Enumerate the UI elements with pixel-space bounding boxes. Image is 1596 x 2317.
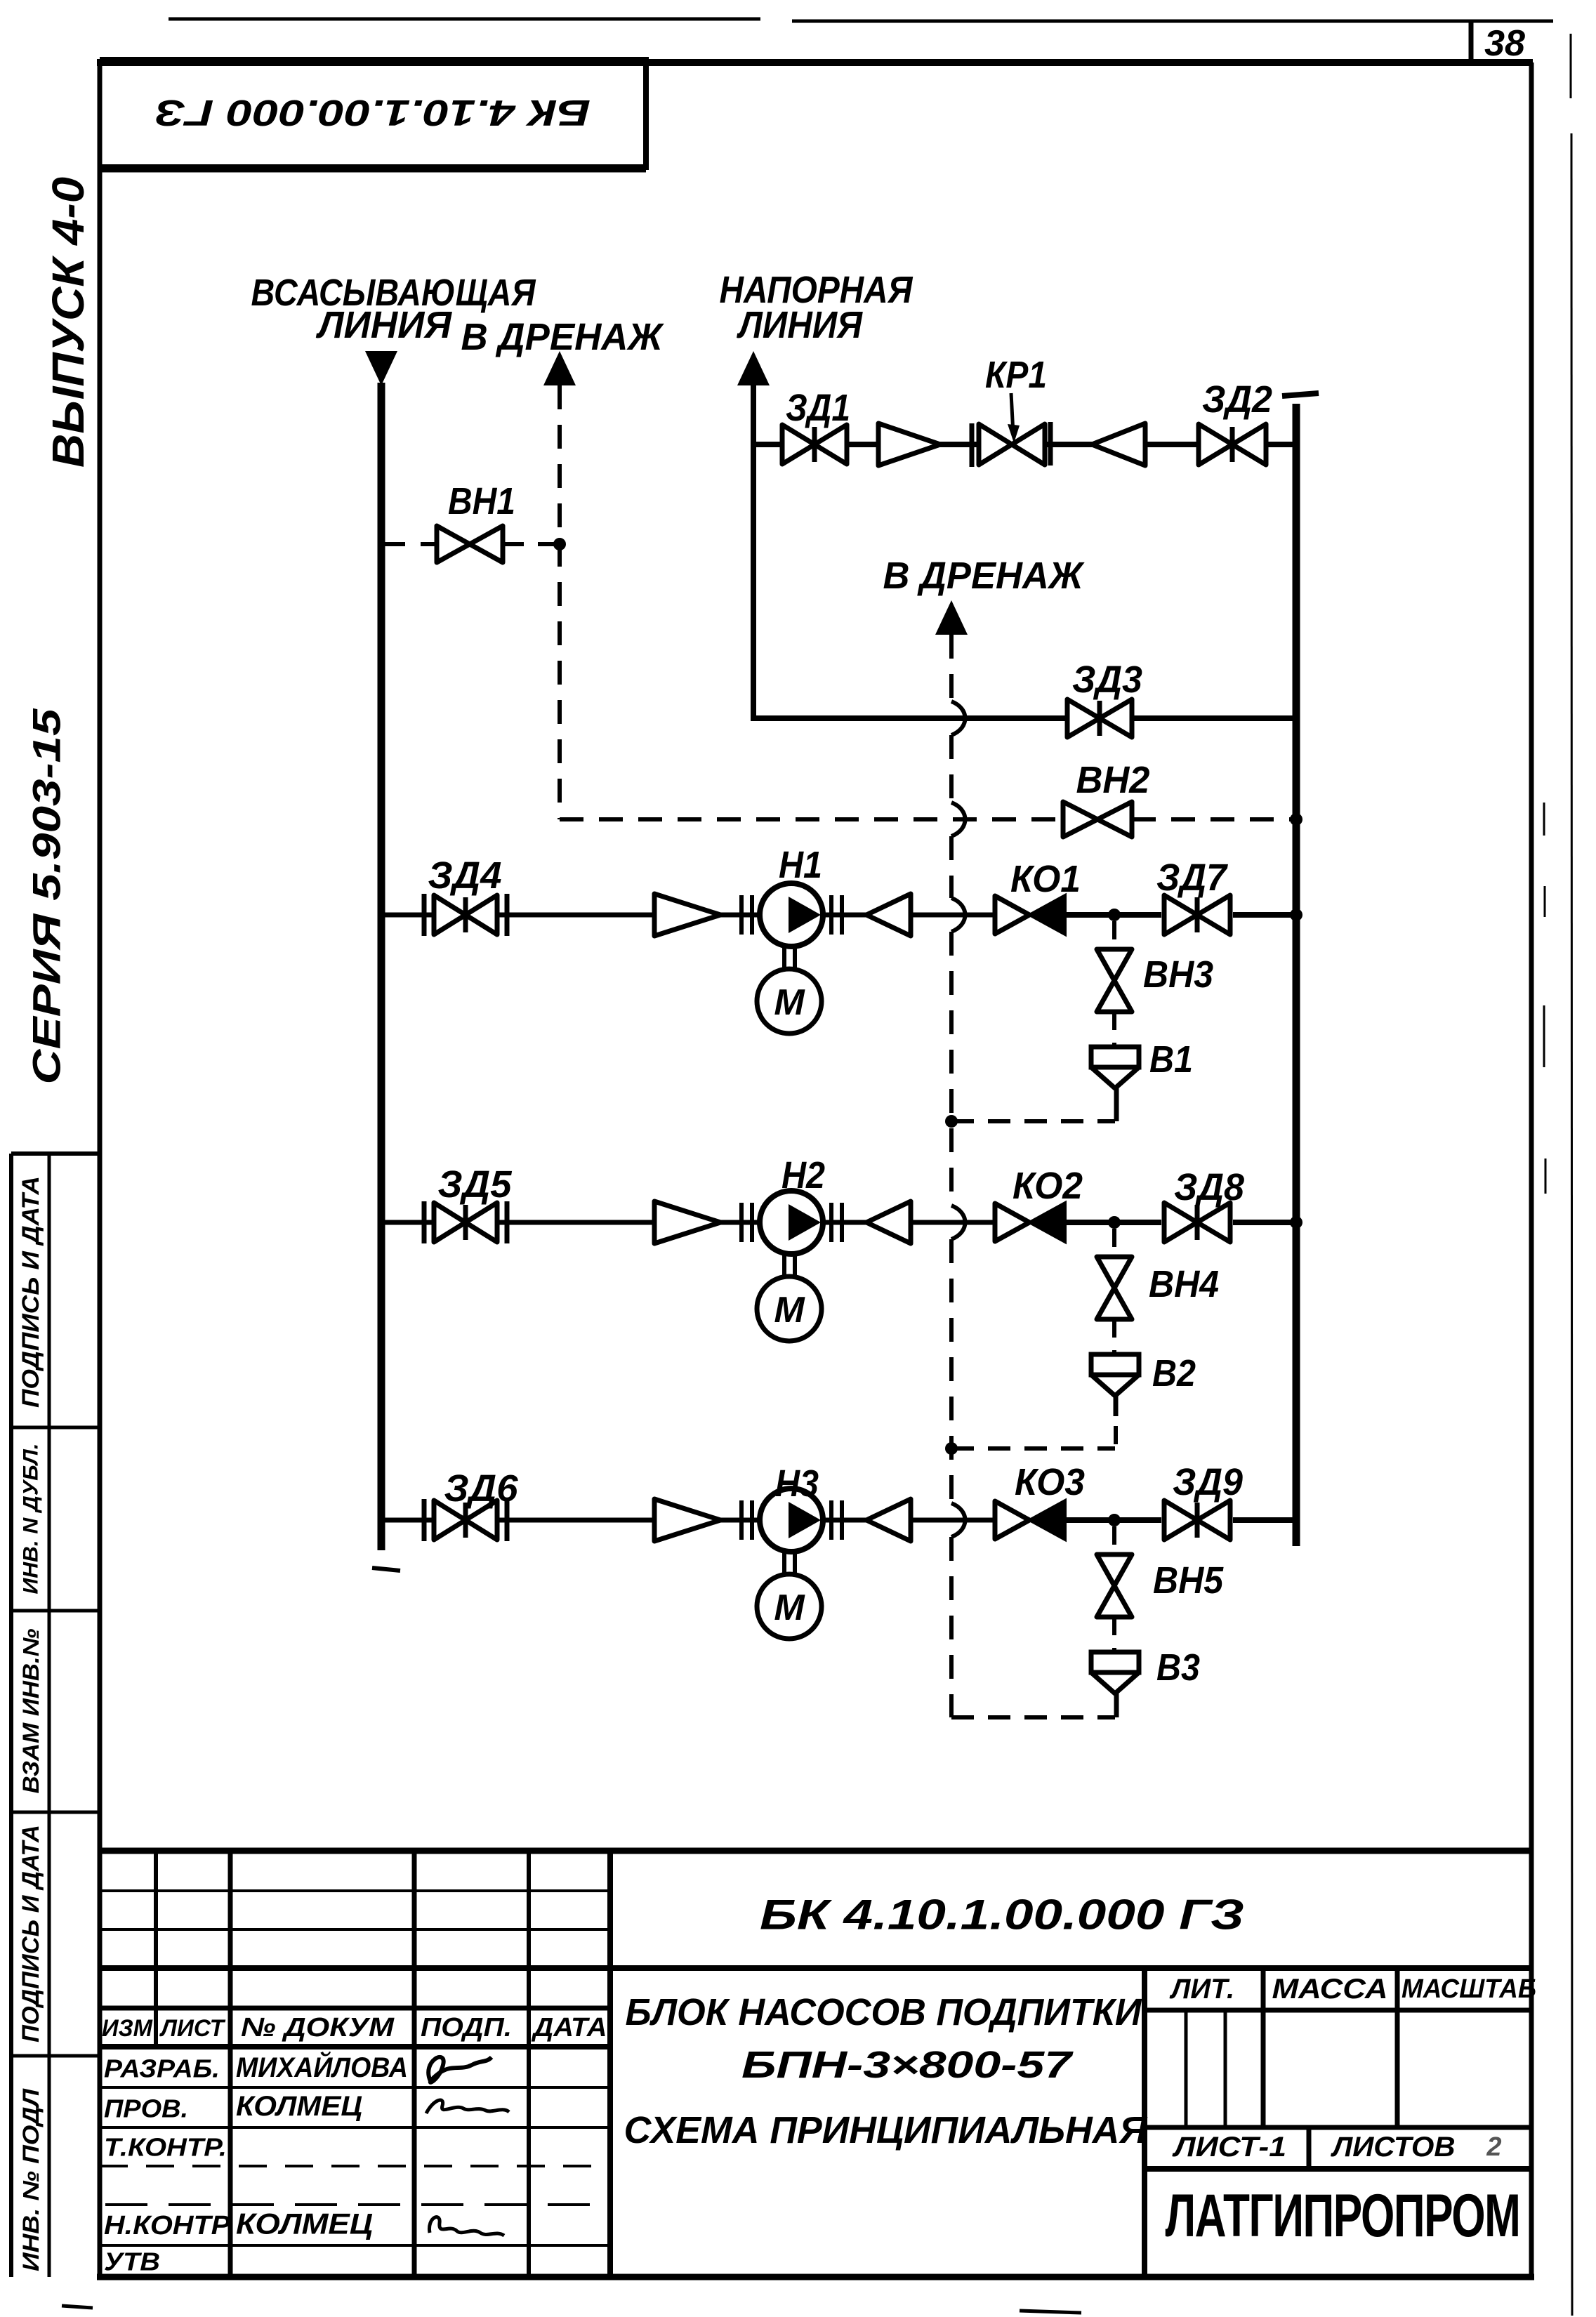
funnel В1: [1091, 1047, 1139, 1067]
svg-text:КОЛМЕЦ: КОЛМЕЦ: [236, 2091, 362, 2122]
funnel В2: [1091, 1354, 1139, 1375]
svg-text:В1: В1: [1149, 1038, 1193, 1081]
svg-text:ЗД5: ЗД5: [438, 1163, 513, 1206]
КР1 leader arrow: [1011, 393, 1013, 434]
wire: pump line Н2: [381, 1220, 433, 1225]
svg-text:В3: В3: [1156, 1646, 1200, 1689]
pump Н1: [760, 883, 823, 946]
pressure / bypass left vertical pipe: [751, 383, 756, 721]
svg-text:ЛИНИЯ: ЛИНИЯ: [315, 304, 453, 346]
frame top border: [97, 59, 1533, 66]
motor shaft Н2: [782, 1253, 786, 1277]
page number box: [1469, 20, 1474, 65]
svg-text:ДАТА: ДАТА: [531, 2013, 607, 2042]
flex joint after pump Н1: [829, 895, 833, 935]
wire: discharge top line: [753, 442, 782, 447]
valve ВН2: [1063, 802, 1132, 837]
svg-text:Т.КОНТР.: Т.КОНТР.: [104, 2133, 227, 2162]
motor M of pump Н2: [757, 1276, 822, 1341]
svg-text:38: 38: [1484, 23, 1525, 64]
svg-text:БЛОК НАСОСОВ ПОДПИТКИ: БЛОК НАСОСОВ ПОДПИТКИ: [626, 1991, 1142, 2033]
svg-text:ЗД2: ЗД2: [1202, 378, 1272, 421]
flex joint before pump Н3: [739, 1500, 744, 1540]
title block line under doc number: [100, 1965, 1531, 1971]
svg-text:МАССА: МАССА: [1272, 1974, 1388, 2005]
node: branch of ВН5: [1108, 1514, 1121, 1526]
svg-text:ПОДПИСЬ И ДАТА: ПОДПИСЬ И ДАТА: [18, 1825, 44, 2042]
dashed stub between ВН3 and funnel В1: [1112, 1012, 1116, 1047]
svg-text:М: М: [774, 1587, 805, 1628]
valve ВН3: [1097, 949, 1132, 1012]
wire: dashed return to drain header at y=1597: [951, 1119, 1115, 1123]
reducer before pump Н3: [654, 1499, 720, 1541]
drain line 2 arrow (up): [935, 600, 968, 635]
svg-text:ЗД7: ЗД7: [1156, 857, 1229, 899]
svg-text:ЛИСТ: ЛИСТ: [159, 2015, 226, 2042]
svg-text:БК 4.10.1.00.000 ГЗ: БК 4.10.1.00.000 ГЗ: [760, 1892, 1244, 1939]
svg-text:ЗД4: ЗД4: [428, 854, 502, 897]
svg-text:ЗД6: ЗД6: [444, 1467, 519, 1510]
svg-text:УТВ: УТВ: [104, 2247, 160, 2276]
flex joint after pump Н3: [829, 1500, 833, 1540]
frame left border: [98, 60, 103, 2280]
wire: dashed return to drain header at y=2446: [951, 1715, 1115, 1719]
motor shaft Н3: [782, 1551, 786, 1575]
reducer (top line, left-pointing): [1092, 423, 1145, 466]
svg-text:В ДРЕНАЖ: В ДРЕНАЖ: [883, 555, 1086, 597]
dashed stub between ВН5 and funnel В3: [1112, 1617, 1116, 1652]
pressure header end cap: [1282, 393, 1319, 396]
node: ВН1 line to drain line 1: [553, 538, 566, 550]
svg-text:ИНВ. № ПОДЛ: ИНВ. № ПОДЛ: [18, 2088, 44, 2271]
svg-text:ЛИСТОВ: ЛИСТОВ: [1330, 2132, 1455, 2163]
valve ЗД1: [782, 425, 847, 464]
reducer (top line, right-pointing): [878, 423, 940, 466]
control valve КР1: [970, 423, 975, 467]
svg-text:ПОДПИСЬ И ДАТА: ПОДПИСЬ И ДАТА: [18, 1176, 44, 1408]
signature of Н.КОНТР КОЛМЕЦ: [429, 2217, 504, 2236]
wire: drain header dashed line with ВН2: [560, 817, 1063, 821]
svg-text:ВН3: ВН3: [1143, 953, 1213, 996]
node: pump line Н1 to pressure header: [1290, 909, 1302, 921]
wire: dashed return to drain header at y=2063: [951, 1446, 1115, 1451]
node: drain return junction: [945, 1115, 958, 1128]
sheet outer top thin line: [169, 18, 760, 21]
svg-text:СХЕМА ПРИНЦИПИАЛЬНАЯ: СХЕМА ПРИНЦИПИАЛЬНАЯ: [624, 2109, 1149, 2151]
reducer after pump Н2: [866, 1201, 911, 1243]
valve ВН5: [1097, 1554, 1132, 1617]
svg-text:ВЫПУСК 4-0: ВЫПУСК 4-0: [43, 177, 93, 468]
node: branch of ВН4: [1108, 1216, 1121, 1229]
dashed drop below funnel В1: [1114, 1088, 1119, 1121]
node: branch of ВН3: [1108, 909, 1121, 921]
frame right border: [1529, 62, 1534, 2280]
svg-text:ВН1: ВН1: [448, 480, 515, 522]
valve ЗД4: [422, 894, 427, 936]
wire: suction drain dashed line with ВН1: [381, 542, 437, 546]
funnel В3: [1091, 1652, 1139, 1672]
frame bottom border: [97, 2274, 1534, 2280]
node: pump line Н2 to pressure header: [1290, 1216, 1302, 1229]
flex joint before pump Н2: [739, 1203, 744, 1242]
check valve КО1: [995, 896, 1029, 934]
title block top border: [100, 1848, 1531, 1854]
drain line 1 arrow (up): [543, 351, 576, 385]
svg-text:КО3: КО3: [1015, 1461, 1085, 1503]
svg-text:ВН4: ВН4: [1149, 1263, 1219, 1305]
reducer before pump Н2: [654, 1201, 720, 1243]
drain line 2 dashed vertical with hops: [949, 635, 954, 701]
pump Н3: [760, 1488, 823, 1552]
svg-text:КО2: КО2: [1013, 1165, 1083, 1207]
svg-text:ИЗМ: ИЗМ: [102, 2015, 153, 2042]
wire: pump line Н3: [381, 1518, 433, 1523]
reducer after pump Н3: [866, 1499, 911, 1541]
svg-text:Н1: Н1: [779, 844, 822, 886]
sheet outer right edge line: [1570, 34, 1572, 98]
svg-text:КР1: КР1: [985, 354, 1047, 396]
svg-text:В ДРЕНАЖ: В ДРЕНАЖ: [461, 316, 665, 358]
drain branch dashed stub above ВН5: [1112, 1526, 1116, 1554]
svg-text:ЗД3: ЗД3: [1072, 659, 1142, 701]
drain branch dashed stub above ВН4: [1112, 1229, 1116, 1257]
valve ВН1: [437, 526, 503, 562]
suction line arrow (down): [365, 351, 397, 385]
title block right section lines: [1142, 1968, 1147, 2277]
svg-text:ВН5: ВН5: [1153, 1559, 1224, 1602]
title block horizontal lines (left table): [100, 1889, 610, 1892]
scan artifacts: right margin marks: [1543, 803, 1545, 836]
left margin boxes: [9, 1154, 13, 2277]
motor shaft Н1: [782, 946, 786, 970]
svg-text:В2: В2: [1152, 1352, 1196, 1394]
valve ЗД7: [1164, 895, 1230, 935]
svg-text:ЛАТГИПРОПРОМ: ЛАТГИПРОПРОМ: [1166, 2182, 1520, 2250]
pump Н2: [760, 1191, 823, 1254]
wire: pump line Н1: [381, 913, 433, 918]
svg-text:ЛИНИЯ: ЛИНИЯ: [736, 304, 863, 346]
svg-text:ЛИСТ-1: ЛИСТ-1: [1172, 2132, 1286, 2163]
suction header vertical pipe: [378, 383, 385, 1550]
title block header row lines: [100, 2006, 610, 2011]
drain line 1 dashed vertical: [558, 385, 562, 819]
svg-text:ЗД9: ЗД9: [1173, 1461, 1243, 1503]
scan artifacts: bottom edge dashes: [62, 2306, 93, 2308]
valve ЗД9: [1164, 1500, 1230, 1540]
svg-text:Н3: Н3: [775, 1463, 819, 1505]
svg-text:ПОДП.: ПОДП.: [421, 2013, 512, 2042]
signature of КОЛМЕЦ: [426, 2100, 509, 2113]
svg-text:Н.КОНТР: Н.КОНТР: [104, 2211, 231, 2240]
svg-text:СЕРИЯ 5.903-15: СЕРИЯ 5.903-15: [25, 708, 69, 1084]
svg-text:ЗД1: ЗД1: [786, 387, 850, 429]
node: ВН2 to pressure header: [1290, 813, 1302, 826]
svg-text:РАЗРАБ.: РАЗРАБ.: [104, 2054, 220, 2083]
svg-text:МИХАЙЛОВА: МИХАЙЛОВА: [236, 2050, 408, 2083]
check valve КО2: [995, 1203, 1029, 1241]
node: drain return junction: [945, 1442, 958, 1455]
flex joint before pump Н1: [739, 895, 744, 935]
valve ЗД2: [1199, 424, 1266, 465]
svg-text:БПН-3×800-57: БПН-3×800-57: [741, 2044, 1074, 2086]
svg-text:№ ДОКУМ: № ДОКУМ: [241, 2013, 395, 2042]
svg-text:Н2: Н2: [781, 1154, 825, 1196]
reducer after pump Н1: [866, 894, 911, 936]
top-left stamp box: [100, 60, 646, 167]
motor M of pump Н3: [757, 1574, 822, 1639]
dashed stub between ВН4 and funnel В2: [1112, 1319, 1116, 1354]
svg-text:ПРОВ.: ПРОВ.: [104, 2094, 188, 2123]
valve ВН4: [1097, 1257, 1132, 1319]
flex joint after pump Н2: [829, 1203, 833, 1242]
valve ЗД8: [1164, 1203, 1230, 1242]
valve ЗД5: [422, 1201, 427, 1243]
pressure line arrow (up): [737, 351, 770, 385]
svg-text:ЛИТ.: ЛИТ.: [1169, 1974, 1234, 2005]
dashed drop below funnel В2: [1114, 1396, 1119, 1416]
svg-text:КОЛМЕЦ: КОЛМЕЦ: [236, 2207, 373, 2240]
svg-text:М: М: [774, 982, 805, 1023]
title block vertical lines (left table): [154, 1851, 158, 2047]
motor M of pump Н1: [757, 969, 822, 1034]
valve ЗД6: [422, 1499, 427, 1541]
svg-text:ВЗАМ ИНВ.№: ВЗАМ ИНВ.№: [18, 1628, 44, 1793]
svg-text:БК 4.10.1.00.000 ГЗ: БК 4.10.1.00.000 ГЗ: [155, 92, 591, 133]
signature of МИХАЙЛОВА: [428, 2057, 492, 2082]
pressure header vertical pipe: [1293, 404, 1300, 1546]
wire: bypass line with ЗД3: [753, 715, 1067, 721]
reducer before pump Н1: [654, 894, 720, 936]
svg-text:ИНВ. N ДУБЛ.: ИНВ. N ДУБЛ.: [20, 1444, 43, 1595]
check valve КО3: [995, 1501, 1029, 1539]
svg-text:2: 2: [1486, 2132, 1501, 2162]
drain branch dashed stub above ВН3: [1112, 921, 1116, 949]
svg-text:ЗД8: ЗД8: [1174, 1166, 1244, 1208]
valve ЗД3: [1067, 699, 1132, 737]
svg-text:М: М: [774, 1290, 805, 1331]
svg-text:МАСШТАБ: МАСШТАБ: [1402, 1974, 1536, 2004]
dashed drop below funnel В3: [1114, 1694, 1119, 1717]
svg-text:КО1: КО1: [1010, 858, 1081, 900]
svg-text:ВН2: ВН2: [1076, 759, 1150, 801]
